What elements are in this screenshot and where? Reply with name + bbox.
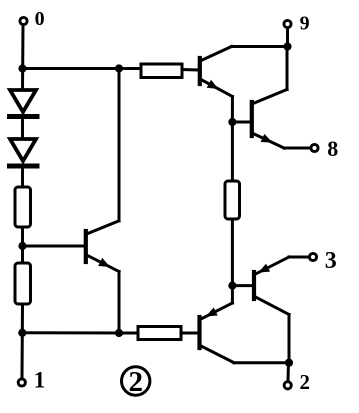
resistor R5 xyxy=(141,64,182,78)
wire node B to Q2 base xyxy=(23,245,85,248)
wire D1 to D2 xyxy=(21,117,24,140)
resistor R4 xyxy=(138,327,181,340)
wire R4 to transistor Q3 base xyxy=(181,332,198,335)
wire Q3 emitter to node G xyxy=(231,286,234,303)
node C (bottom-left junction) xyxy=(19,329,26,336)
node I (bottom of middle column) xyxy=(115,329,122,336)
wire R2 to terminal 1 xyxy=(21,304,25,378)
transistor Q3 xyxy=(200,303,235,363)
resistor R3 xyxy=(225,181,240,219)
wire Q1 emitter to node F xyxy=(231,97,234,123)
wire R3 to node G xyxy=(231,219,234,286)
wire node E to terminal 9 xyxy=(286,29,289,47)
svg-text:2: 2 xyxy=(299,370,310,394)
svg-text:8: 8 xyxy=(327,136,338,161)
wire R1 to R2 xyxy=(21,227,24,263)
wire Q2 emitter to node I xyxy=(118,272,121,334)
terminal 3 xyxy=(309,253,316,260)
wire node F to resistor R3 xyxy=(231,122,234,181)
wire Q1 collector to node E xyxy=(232,45,288,48)
wire Q3 collector to node H xyxy=(234,361,289,364)
terminal 9 xyxy=(284,20,291,27)
wire Q2R emitter to terminal 8 xyxy=(284,147,310,150)
node E (below terminal 9) xyxy=(284,43,291,50)
node G (base node of Q4) xyxy=(229,282,236,289)
wire D2 to resistor R1 xyxy=(21,166,24,187)
svg-text:1: 1 xyxy=(34,368,46,393)
node F (base node of Q2R) xyxy=(229,118,236,125)
terminal 1 xyxy=(18,379,25,386)
wire node C bottom rail to resistor R4 xyxy=(22,331,138,334)
transistor Q1 xyxy=(200,47,233,97)
diode D1 xyxy=(10,90,38,117)
svg-text:9: 9 xyxy=(300,13,310,35)
resistor R1 xyxy=(15,187,31,227)
node H (collector junction) xyxy=(285,359,292,366)
node D (top of middle column) xyxy=(115,65,122,72)
transistor Q4 xyxy=(254,257,289,315)
terminal 8 xyxy=(311,144,318,151)
wire top rail (node A to resistor R5) xyxy=(23,67,142,70)
resistor R2 xyxy=(15,263,31,304)
terminal 2 xyxy=(284,382,291,389)
wire node G to Q4 base xyxy=(232,284,252,287)
wire Q4 emitter to terminal 3 xyxy=(289,256,309,259)
node B (base node of Q2, left) xyxy=(19,242,26,249)
svg-text:2: 2 xyxy=(128,366,143,398)
wire terminal0 to diode D1 xyxy=(21,26,25,91)
figure label circled 2 xyxy=(122,366,150,398)
wire R5 to transistor Q1 base xyxy=(182,68,198,72)
transistor Q2 (left) xyxy=(86,221,119,272)
svg-text:0: 0 xyxy=(35,8,45,30)
terminal 0 xyxy=(20,17,27,24)
wire Q2R collector to node E xyxy=(286,47,289,90)
wire node F to Q2R base xyxy=(232,121,250,124)
wire Q4 collector to node H xyxy=(288,315,291,363)
diode D2 xyxy=(10,139,38,166)
transistor Q2R xyxy=(252,90,287,149)
wire node H to terminal 2 xyxy=(287,363,291,381)
wire Q2 collector to node D xyxy=(118,69,121,221)
node A (top-left junction) xyxy=(19,65,26,72)
svg-text:3: 3 xyxy=(325,248,337,274)
